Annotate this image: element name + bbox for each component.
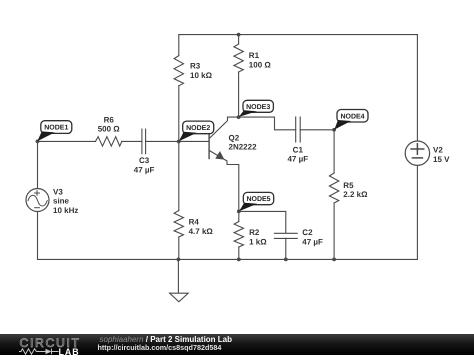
svg-text:R1: R1 xyxy=(249,51,260,60)
label R5 value xyxy=(343,181,368,199)
wire left rail lower (V3 to bottom) xyxy=(37,212,39,260)
svg-text:15 V: 15 V xyxy=(433,155,450,164)
wire NODE4 to R5 xyxy=(333,130,335,173)
footer bar xyxy=(0,334,474,356)
wire Q2 collector to C1 (via NODE3) xyxy=(228,117,296,130)
resistor R5 xyxy=(329,173,338,259)
svg-text:sine: sine xyxy=(53,197,70,206)
node NODE2 label xyxy=(179,121,214,141)
svg-text:10 kHz: 10 kHz xyxy=(53,206,78,215)
label C3 value xyxy=(134,156,155,174)
svg-text:47 µF: 47 µF xyxy=(287,155,308,164)
node NODE1 label xyxy=(37,121,72,142)
wire R6 to C3 xyxy=(122,140,142,142)
label R4 value xyxy=(189,218,214,236)
wire bottom rail xyxy=(38,258,418,260)
svg-text:R5: R5 xyxy=(343,181,354,190)
ground xyxy=(170,259,189,301)
svg-text:500 Ω: 500 Ω xyxy=(98,125,121,134)
transistor Q2 xyxy=(209,117,239,211)
svg-text:NODE1: NODE1 xyxy=(44,125,68,132)
node NODE3 label xyxy=(239,100,274,117)
node NODE4 label xyxy=(334,110,368,130)
svg-text:R2: R2 xyxy=(249,228,260,237)
junction NODE2 xyxy=(177,140,181,144)
voltage source V3 (sine) xyxy=(26,189,49,212)
label R6 value xyxy=(98,115,121,133)
junction NODE4 xyxy=(332,128,336,132)
junction bottom rail / R2 xyxy=(237,258,241,262)
junction NODE1 xyxy=(36,140,40,144)
junction bottom rail / C2 xyxy=(284,258,288,262)
wire C3 to Q2 base (through NODE2) xyxy=(146,140,210,142)
svg-text:1 kΩ: 1 kΩ xyxy=(249,237,267,246)
label Q2 value xyxy=(229,133,258,151)
junction bottom rail / R5 xyxy=(332,258,336,262)
label C1 value xyxy=(287,145,308,163)
junction NODE5 xyxy=(237,210,241,214)
svg-text:C3: C3 xyxy=(139,156,150,165)
wire right rail lower (V2 to bottom) xyxy=(416,165,418,259)
label C2 value xyxy=(302,228,323,246)
resistor R6 xyxy=(96,137,122,146)
wire left rail upper (NODE1 to V3) xyxy=(37,141,39,188)
CircuitLab logo text xyxy=(20,336,81,350)
svg-text:10 kΩ: 10 kΩ xyxy=(190,71,213,80)
CircuitLab logo symbol (resistor + diode) xyxy=(19,348,59,355)
attribution line 2 xyxy=(98,343,222,352)
label R3 value xyxy=(190,62,213,80)
svg-text:R3: R3 xyxy=(190,62,201,71)
label R2 value xyxy=(249,228,267,246)
svg-text:47 µF: 47 µF xyxy=(134,165,155,174)
svg-text:C2: C2 xyxy=(302,228,313,237)
wire top rail xyxy=(179,34,418,36)
wire NODE5 to C2 xyxy=(239,211,286,233)
svg-text:2N2222: 2N2222 xyxy=(229,143,258,152)
capacitor C3 xyxy=(142,129,146,154)
svg-text:47 µF: 47 µF xyxy=(302,237,323,246)
resistor R1 xyxy=(234,35,243,118)
wire C1 to NODE4 xyxy=(300,129,334,131)
svg-text:2.2 kΩ: 2.2 kΩ xyxy=(343,190,368,199)
wire right rail upper (to V2) xyxy=(416,35,418,141)
node NODE5 label xyxy=(239,192,274,211)
svg-text:C1: C1 xyxy=(293,145,304,154)
svg-text:R6: R6 xyxy=(104,115,115,124)
svg-text:NODE3: NODE3 xyxy=(246,104,270,111)
capacitor C1 xyxy=(296,117,301,142)
svg-text:R4: R4 xyxy=(189,218,200,227)
svg-text:Q2: Q2 xyxy=(229,133,240,142)
label R1 value xyxy=(249,51,272,69)
wire C2 to bottom rail xyxy=(285,238,287,259)
svg-text:NODE5: NODE5 xyxy=(246,196,270,203)
capacitor C2 xyxy=(274,233,297,238)
svg-text:NODE2: NODE2 xyxy=(186,125,210,132)
svg-text:4.7 kΩ: 4.7 kΩ xyxy=(189,227,214,236)
wire NODE1 to R6 xyxy=(38,140,96,142)
resistor R2 xyxy=(234,211,243,259)
label V3 value xyxy=(53,187,78,215)
junction top rail / R1 xyxy=(237,33,241,37)
attribution line 1 xyxy=(100,335,233,344)
svg-text:100 Ω: 100 Ω xyxy=(249,61,272,70)
svg-text:NODE4: NODE4 xyxy=(340,113,364,120)
resistor R4 xyxy=(174,141,183,259)
junction NODE3 xyxy=(237,115,241,119)
voltage source V2 (DC 15V) xyxy=(405,141,429,165)
svg-text:V3: V3 xyxy=(53,187,63,196)
junction bottom rail / ground xyxy=(177,258,181,262)
label V2 value xyxy=(433,146,450,164)
resistor R3 xyxy=(174,35,183,142)
svg-text:V2: V2 xyxy=(433,146,443,155)
